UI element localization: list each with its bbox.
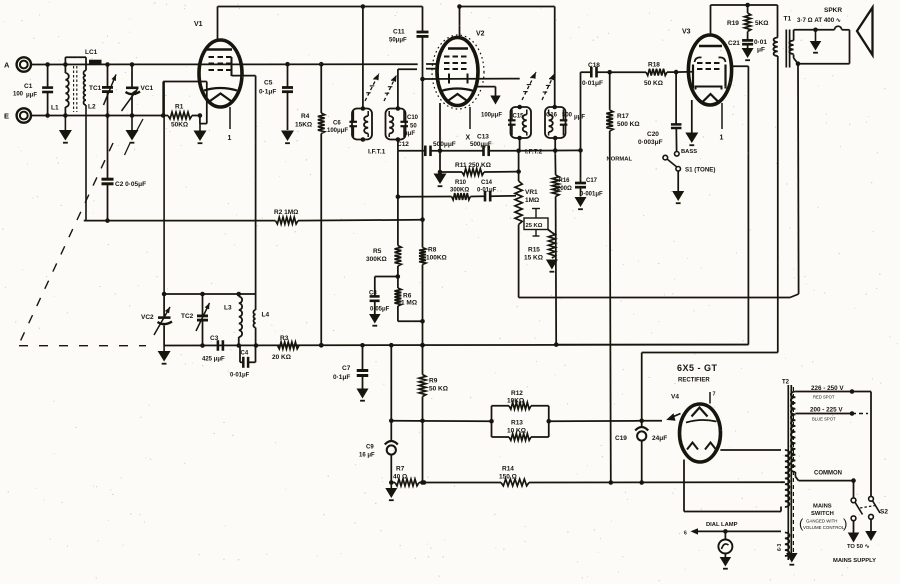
wire aerial line stub into V2 — [426, 63, 438, 65]
svg-text:1 MΩ: 1 MΩ — [401, 300, 417, 307]
wire IFT1 secondary to V2 grid — [398, 69, 438, 151]
coil LC1 core slug — [85, 49, 102, 62]
svg-text:μF: μF — [757, 47, 765, 54]
ganging dashed line — [19, 119, 146, 346]
svg-text:15KΩ: 15KΩ — [295, 122, 312, 129]
wire T2 centre tap to B-minus — [781, 481, 785, 483]
valve V2 lower electrodes — [441, 89, 474, 102]
svg-text:24μF: 24μF — [652, 435, 667, 442]
svg-text:V3: V3 — [682, 29, 691, 36]
capacitor C14 — [477, 180, 516, 201]
tuning arrow IFT2 primary — [542, 74, 555, 101]
wire V1 triode anode to L4 — [232, 76, 256, 310]
resistor R9 — [419, 345, 448, 485]
svg-text:R6: R6 — [403, 293, 412, 300]
wire V2 screen stub with arrow — [478, 87, 501, 105]
label IFT2 — [525, 149, 543, 156]
terminal arrows to mains — [848, 531, 877, 543]
capacitor C12 — [397, 141, 456, 156]
svg-text:100μμF: 100μμF — [481, 113, 502, 119]
IF transformer IFT2 primary box — [545, 105, 567, 141]
svg-text:μμF: μμF — [26, 93, 37, 99]
wire V3 screen to rail — [556, 66, 748, 344]
loudspeaker SPKR — [797, 7, 873, 55]
wire C18 branch riser — [581, 72, 591, 150]
svg-text:R16: R16 — [559, 178, 571, 184]
svg-text:MAINS: MAINS — [813, 504, 832, 510]
resistor R16 — [552, 151, 572, 347]
capacitor C15 labels — [481, 113, 524, 120]
capacitor C10 label — [404, 115, 419, 137]
svg-text:425 μμF: 425 μμF — [202, 357, 225, 363]
svg-text:50μμF: 50μμF — [389, 38, 407, 44]
resistor R5 — [366, 246, 401, 277]
svg-text:500 KΩ: 500 KΩ — [617, 121, 640, 128]
capacitor C4 — [230, 346, 256, 379]
wire V4 plate to T2 HT top — [720, 449, 781, 451]
svg-text:6X5 - GT: 6X5 - GT — [677, 363, 718, 373]
wire aerial line — [31, 63, 418, 65]
wire V1 grid-return loop — [163, 82, 207, 124]
ground below L1 — [59, 116, 72, 143]
svg-text:R5: R5 — [373, 248, 382, 255]
svg-text:V4: V4 — [671, 394, 679, 401]
svg-text:R13: R13 — [511, 420, 523, 427]
output transformer T1 — [773, 16, 793, 68]
ground below C7 — [357, 389, 369, 401]
svg-text:20 KΩ: 20 KΩ — [272, 354, 291, 361]
svg-text:C14: C14 — [481, 180, 493, 186]
switch S1 tone — [607, 149, 716, 191]
coil L4 — [253, 310, 269, 346]
ground below V2 cathode — [434, 174, 447, 187]
svg-text:C19: C19 — [615, 435, 627, 442]
svg-text:C12: C12 — [397, 141, 409, 148]
wire V4 plate 2 to T2 HT bottom — [684, 460, 781, 512]
svg-text:50 KΩ: 50 KΩ — [644, 80, 663, 87]
svg-text:COMMON: COMMON — [814, 471, 842, 477]
resistor R15 — [524, 230, 555, 262]
wire V2 anode to HT bus — [457, 4, 555, 37]
svg-text:LC1: LC1 — [85, 49, 98, 56]
svg-text:BASS: BASS — [681, 149, 697, 155]
wire AVC line R2 — [84, 220, 276, 222]
wire HT rail to T1 primary — [777, 5, 779, 38]
svg-text:T1: T1 — [784, 16, 792, 23]
wire IFT1 secondary return down — [396, 151, 401, 279]
svg-text:50KΩ: 50KΩ — [171, 122, 188, 129]
svg-text:BLUE SPOT: BLUE SPOT — [812, 417, 836, 422]
valve V3 (output) — [682, 29, 732, 106]
coil L1 — [51, 62, 69, 118]
svg-text:6·3: 6·3 — [777, 544, 783, 551]
svg-text:MAINS SUPPLY: MAINS SUPPLY — [833, 558, 876, 564]
terminal E (earth) — [4, 108, 31, 122]
wire V3 grid — [676, 71, 692, 73]
svg-text:C17: C17 — [586, 178, 598, 184]
svg-text:L4: L4 — [262, 312, 270, 319]
ground below R15 — [546, 260, 558, 272]
ground at V1 cathode — [194, 124, 207, 144]
svg-text:R2 1MΩ: R2 1MΩ — [274, 209, 298, 216]
svg-text:C1: C1 — [24, 83, 33, 90]
labels mains switch — [799, 504, 876, 565]
ground below C21 — [742, 48, 754, 60]
ground below T2 core — [786, 553, 798, 565]
resistor R18 — [610, 62, 679, 88]
svg-text:TO 50 ∿: TO 50 ∿ — [847, 544, 870, 550]
svg-text:500: 500 — [562, 113, 573, 119]
svg-text:L2: L2 — [88, 104, 96, 111]
capacitor C16 labels — [546, 113, 585, 121]
resistor R10 — [396, 180, 485, 200]
mains transformer T2 — [777, 380, 795, 561]
svg-text:R11 250 KΩ: R11 250 KΩ — [455, 162, 491, 169]
svg-text:50 KΩ: 50 KΩ — [429, 386, 448, 393]
resistor R17 — [606, 72, 639, 485]
svg-text:C4: C4 — [241, 351, 249, 357]
svg-text:226 - 250 V: 226 - 250 V — [811, 385, 844, 392]
svg-text:500μμF: 500μμF — [470, 141, 492, 148]
svg-text:R10: R10 — [455, 180, 467, 186]
svg-text:C16: C16 — [546, 113, 558, 119]
svg-text:150 Ω: 150 Ω — [499, 473, 517, 480]
svg-text:R17: R17 — [617, 113, 629, 120]
variable capacitor VC2 — [141, 294, 172, 346]
svg-text:1: 1 — [228, 135, 232, 142]
svg-text:): ) — [843, 516, 847, 531]
ground below V3 cathode — [685, 133, 698, 146]
svg-text:I.F.T.1: I.F.T.1 — [368, 149, 386, 156]
svg-text:25 KΩ: 25 KΩ — [526, 223, 543, 229]
svg-text:(: ( — [799, 516, 804, 531]
wire T1 primary bottom down — [777, 56, 779, 353]
wire IFT2 secondary bottom to tone branch — [519, 138, 583, 153]
svg-text:0·05μF: 0·05μF — [370, 307, 390, 313]
ground below C8 — [369, 314, 381, 326]
svg-text:RECTIFIER: RECTIFIER — [678, 378, 710, 384]
tuning arrow IFT1 secondary — [384, 75, 397, 101]
svg-text:R4: R4 — [301, 113, 310, 120]
svg-text:R8: R8 — [428, 247, 437, 254]
svg-text:100μμF: 100μμF — [327, 128, 348, 134]
ground below S1 — [672, 191, 684, 203]
valve V1 (frequency changer) — [194, 21, 242, 107]
wire detector line — [398, 150, 425, 152]
svg-text:R3: R3 — [280, 335, 289, 342]
trimmer TC2 — [181, 294, 210, 346]
capacitor C18 — [582, 62, 612, 87]
resistor R7 — [393, 466, 426, 486]
capacitor C21 — [728, 39, 767, 54]
label IFT1 — [368, 149, 386, 156]
ground below VC1 — [126, 116, 139, 143]
terminal A (aerial) — [4, 57, 31, 71]
wire V3 cathode — [691, 100, 693, 133]
ground on speaker line — [810, 30, 822, 53]
svg-text:NORMAL: NORMAL — [607, 157, 633, 163]
svg-text:C10: C10 — [407, 115, 419, 121]
svg-text:SWITCH: SWITCH — [811, 511, 834, 517]
svg-text:SPKR: SPKR — [824, 7, 842, 14]
capacitor C9 (electrolytic) — [359, 421, 398, 485]
svg-text:L3: L3 — [224, 305, 232, 312]
svg-text:VOLUME CONTROL: VOLUME CONTROL — [803, 525, 845, 530]
capacitor C8 — [369, 277, 398, 315]
svg-text:R1: R1 — [175, 104, 184, 111]
resistor R14 — [424, 466, 784, 486]
svg-text:R15: R15 — [528, 247, 540, 254]
screen (dotted) around V2 — [432, 35, 484, 109]
capacitor C20 — [638, 72, 681, 151]
svg-text:S1 (TONE): S1 (TONE) — [685, 167, 715, 174]
svg-text:0·1μF: 0·1μF — [333, 374, 350, 381]
svg-text:C20: C20 — [647, 131, 659, 138]
wire V1 anode to HT bus — [218, 4, 423, 41]
svg-text:300KΩ: 300KΩ — [450, 188, 469, 194]
capacitor C19 (electrolytic) — [615, 421, 667, 485]
svg-text:C11: C11 — [393, 29, 405, 36]
svg-text:R9: R9 — [429, 378, 438, 385]
svg-text:I.F.T.2: I.F.T.2 — [525, 149, 543, 156]
wire detector diode line — [423, 74, 520, 84]
svg-text:L1: L1 — [51, 105, 59, 112]
svg-text:C5: C5 — [264, 80, 273, 87]
svg-text:V1: V1 — [194, 21, 203, 28]
wire HT feed line — [389, 345, 494, 423]
resistor R6 — [395, 277, 423, 322]
wire earth line — [31, 115, 163, 117]
IF transformer IFT2 secondary box — [508, 105, 531, 141]
svg-text:R12: R12 — [511, 390, 523, 397]
svg-text:C18: C18 — [588, 62, 600, 69]
svg-text:10 KΩ: 10 KΩ — [507, 427, 526, 434]
trimmer TC1 — [89, 62, 116, 118]
svg-text:C9: C9 — [366, 445, 374, 451]
capacitor C1 — [13, 62, 53, 118]
iron core (dashed) — [74, 66, 77, 112]
wire common tap — [795, 471, 855, 483]
svg-text:1MΩ: 1MΩ — [525, 197, 539, 204]
svg-text:C13: C13 — [477, 134, 489, 141]
svg-text:C15: C15 — [513, 114, 525, 120]
wire HT bus to IFT1 primary — [362, 7, 364, 109]
svg-text:R18: R18 — [648, 62, 660, 69]
wire oscillator tank top — [162, 82, 256, 297]
svg-text:VR1: VR1 — [525, 189, 538, 196]
resistors R12 R13 parallel — [492, 390, 552, 440]
svg-text:0·01μF: 0·01μF — [230, 373, 250, 379]
svg-text:T2: T2 — [782, 380, 790, 386]
tap 200-225V — [795, 407, 868, 422]
IF transformer IFT1 primary box — [349, 106, 372, 142]
wire HT to C19 node — [549, 419, 662, 424]
svg-text:0·1μF: 0·1μF — [259, 89, 276, 96]
svg-text:0·01: 0·01 — [754, 39, 767, 46]
resistor R2 — [274, 209, 423, 224]
resistor R8 — [419, 247, 447, 348]
svg-text:S2: S2 — [880, 509, 888, 516]
svg-text:7: 7 — [713, 392, 716, 398]
pin stub 1 of V3 — [720, 103, 724, 142]
tap 226-250V — [795, 385, 871, 400]
svg-text:RED SPOT: RED SPOT — [813, 395, 835, 400]
svg-text:200 - 225 V: 200 - 225 V — [810, 407, 843, 414]
svg-text:μμF: μμF — [404, 131, 415, 137]
svg-text:16 μF: 16 μF — [359, 453, 375, 459]
svg-text:10KΩ: 10KΩ — [507, 397, 524, 404]
svg-text:15 KΩ: 15 KΩ — [524, 255, 543, 262]
svg-text:DIAL LAMP: DIAL LAMP — [706, 522, 738, 528]
wire B-minus line — [391, 482, 395, 484]
IF transformer IFT1 secondary box — [386, 106, 408, 142]
svg-text:200Ω: 200Ω — [557, 186, 572, 192]
svg-text:1: 1 — [720, 135, 724, 142]
capacitor C5 — [259, 62, 293, 130]
wire oscillator line down — [420, 77, 425, 248]
svg-text:C7: C7 — [342, 365, 351, 372]
tuning arrow IFT2 secondary — [522, 72, 536, 100]
switch S2 mains — [851, 392, 888, 533]
ground below dial lamp — [720, 557, 732, 569]
svg-text:0·003μF: 0·003μF — [638, 139, 663, 146]
svg-text:100KΩ: 100KΩ — [426, 255, 447, 262]
coil L3 — [224, 294, 242, 346]
svg-text:500μμF: 500μμF — [433, 141, 456, 148]
capacitor C7 — [333, 345, 368, 388]
svg-text:C6: C6 — [333, 121, 341, 127]
svg-text:R7: R7 — [396, 466, 405, 473]
svg-text:V2: V2 — [476, 31, 485, 38]
ground below R7 — [385, 483, 397, 501]
ground below C17 — [575, 197, 587, 209]
wire T1 secondary return down — [519, 64, 799, 298]
svg-text:C21: C21 — [728, 40, 740, 47]
pin stub X of V2 — [466, 107, 471, 142]
coil L2 — [65, 57, 96, 220]
svg-text:6: 6 — [684, 531, 687, 537]
wire V2 anode line down to IFT2 — [554, 7, 556, 108]
svg-text:100: 100 — [13, 92, 24, 98]
resistor R4 — [295, 62, 325, 348]
variable capacitor VC1 — [122, 62, 154, 118]
svg-text:0·001μF: 0·001μF — [580, 192, 603, 198]
wire speaker circuit — [794, 26, 850, 66]
resistor R11 — [440, 162, 521, 175]
svg-text:C8: C8 — [369, 291, 377, 297]
svg-text:TC2: TC2 — [181, 313, 194, 320]
valve V4 (rectifier) — [671, 392, 721, 463]
svg-text:0·01μF: 0·01μF — [582, 80, 603, 87]
svg-text:VC2: VC2 — [141, 314, 154, 321]
potentiometer VR1 — [515, 151, 539, 298]
svg-text:TC1: TC1 — [89, 85, 102, 92]
svg-text:40 Ω: 40 Ω — [393, 473, 407, 480]
capacitor C3 — [202, 335, 225, 363]
tuning arrow IFT1 primary — [365, 74, 379, 102]
wire screen HT rail — [164, 343, 748, 348]
dial lamp — [684, 522, 781, 557]
capacitor C2 — [102, 116, 147, 223]
svg-text:R19: R19 — [727, 20, 739, 27]
svg-text:C2 0·05μF: C2 0·05μF — [115, 181, 146, 188]
svg-text:5KΩ: 5KΩ — [755, 20, 769, 27]
wire V3 anode to top rail — [711, 3, 778, 36]
svg-text:0·01μF: 0·01μF — [477, 188, 497, 194]
capacitor C17 — [575, 150, 603, 197]
capacitor C13 — [470, 134, 521, 157]
tap 25K on VR1 — [524, 209, 548, 237]
ground below C5 — [281, 131, 294, 144]
svg-text:GANGED WITH: GANGED WITH — [806, 519, 837, 524]
svg-text:300KΩ: 300KΩ — [366, 256, 387, 263]
svg-text:50: 50 — [410, 124, 417, 130]
svg-text:A: A — [4, 61, 10, 70]
wire V2 cathode down — [438, 103, 443, 174]
resistor R3 — [272, 335, 299, 361]
resistor R1 — [161, 104, 202, 129]
wire detector line 2 — [440, 150, 483, 152]
resistor R19 — [727, 5, 769, 40]
svg-text:E: E — [4, 112, 9, 121]
pin stub 1 of V1 — [228, 107, 232, 142]
valve V2 (IF amplifier / detector) — [437, 31, 485, 106]
svg-text:C3: C3 — [210, 335, 219, 342]
capacitor C11 — [389, 7, 429, 80]
wire V4 cathode arrow to HT — [666, 413, 680, 421]
svg-text:R14: R14 — [502, 466, 514, 473]
label 6X5-GT rectifier — [677, 363, 718, 384]
svg-text:VC1: VC1 — [141, 85, 154, 92]
capacitor C6 label — [327, 121, 348, 135]
wire T1 primary return to smoothing — [642, 353, 778, 421]
svg-text:3·7 Ω AT 400 ∿: 3·7 Ω AT 400 ∿ — [797, 17, 841, 24]
ground below VC2 — [158, 346, 171, 364]
